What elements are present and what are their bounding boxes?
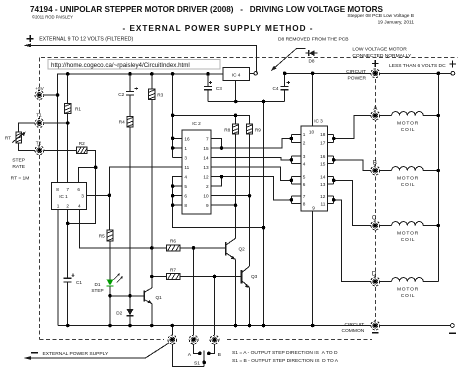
polarity - circuit common (372, 332, 379, 334)
wire: LED D1 to ground rail (109, 286, 111, 326)
svg-text:6: 6 (303, 182, 306, 187)
svg-text:RT = 1M: RT = 1M (11, 176, 30, 182)
svg-text:MOTOR: MOTOR (397, 176, 419, 182)
svg-text:R3: R3 (157, 93, 163, 98)
svg-text:C1: C1 (76, 280, 82, 285)
svg-text:Q3: Q3 (251, 274, 258, 279)
IC4 output open circle (254, 72, 257, 75)
svg-text:- EXTERNAL POWER SUPPLY METHOD: - EXTERNAL POWER SUPPLY METHOD - (122, 24, 313, 33)
terminal motor D (371, 277, 380, 286)
svg-text:D1: D1 (95, 282, 101, 287)
wire: C4 column (284, 73, 286, 101)
node: pin2 C1 junction (66, 222, 70, 226)
terminal T1 (35, 119, 44, 128)
potentiometer RT (5, 131, 26, 143)
svg-text:7: 7 (206, 136, 209, 141)
node: switch contacts (198, 352, 202, 356)
terminal direction A (189, 335, 198, 344)
svg-text:R7: R7 (170, 267, 176, 272)
wire: IC1 pin 1 to ground rail (57, 210, 59, 326)
svg-text:POWER: POWER (348, 75, 367, 81)
svg-text:14: 14 (320, 174, 326, 179)
svg-text:COIL: COIL (401, 182, 416, 188)
wire: QC line to IC3 (211, 167, 291, 180)
wire: IC4 ground to bottom rail (263, 102, 265, 326)
wire: motor power rail (285, 72, 452, 74)
wire: ground bus under IC4 (208, 101, 285, 103)
svg-text:12: 12 (203, 175, 209, 180)
wire: R5 to LED D1 (109, 241, 111, 279)
D8 leader arrow (271, 48, 306, 71)
svg-text:S1: S1 (194, 361, 200, 367)
wire: bottom ground rail (58, 325, 451, 327)
node: pull-up rail junctions (171, 114, 175, 118)
wire: IC3 input bracket 2 (291, 156, 300, 164)
motor supply + open circle (451, 71, 455, 75)
node: motor rail junctions (283, 72, 287, 76)
svg-text:7: 7 (303, 194, 306, 199)
svg-text:C3: C3 (216, 86, 222, 91)
svg-text:15: 15 (203, 146, 209, 151)
node: +5V rail junctions (66, 72, 70, 76)
svg-text:9: 9 (206, 203, 209, 208)
wire: IC3 input bracket 4 (291, 196, 300, 204)
node: pin9 junction (234, 203, 238, 207)
border top (41, 57, 458, 59)
svg-text:STEP: STEP (91, 288, 103, 293)
node: ground bus junctions (234, 100, 238, 104)
op-amp / timer IC1 (51, 183, 86, 210)
svg-text:4: 4 (184, 175, 187, 180)
wire: switch lever (203, 351, 205, 367)
wire: IC4 output to open circle (249, 72, 254, 74)
transistor Q3 (241, 266, 257, 287)
wire: IC1 pin 4 to R6 line (79, 210, 166, 248)
capacitor C2 (118, 87, 138, 97)
wire: IC2 pin8 stub (173, 204, 182, 206)
svg-text:EXTERNAL 9 TO 12 VOLTS (FILTER: EXTERNAL 9 TO 12 VOLTS (FILTERED) (39, 37, 133, 43)
motor coil A (392, 112, 424, 116)
svg-text:IC 3: IC 3 (314, 119, 323, 124)
wire: +5V rail (58, 74, 223, 95)
diode D2 (116, 309, 133, 316)
wire: coil C leads (380, 225, 439, 227)
wire: R1 column (67, 74, 69, 183)
svg-text:Stepper 08 PCB Low Voltage B: Stepper 08 PCB Low Voltage B (347, 13, 414, 19)
svg-text:R4: R4 (119, 120, 125, 125)
wire: pin3 down to R5 (108, 195, 110, 230)
wire: QB line to IC3 (211, 158, 291, 160)
svg-text:3: 3 (81, 193, 84, 198)
svg-text:18: 18 (320, 132, 326, 137)
svg-text:9: 9 (312, 205, 315, 210)
svg-text:1: 1 (303, 132, 306, 137)
svg-text:D8 REMOVED FROM THE PCB: D8 REMOVED FROM THE PCB (278, 36, 349, 42)
svg-text:C4: C4 (273, 86, 279, 91)
wire: IC2 pin5 stub (173, 185, 182, 187)
svg-text:©2011 ROD PAISLEY: ©2011 ROD PAISLEY (32, 15, 73, 20)
svg-text:3: 3 (303, 154, 306, 159)
svg-text:CONNECTED NORMALLY: CONNECTED NORMALLY (352, 53, 412, 59)
svg-text:MOTOR: MOTOR (397, 231, 419, 237)
terminal ground 1 (168, 335, 177, 344)
wire: RT bottom lead (19, 143, 35, 150)
diode D8 (removed from PCB) (305, 50, 317, 63)
svg-text:15: 15 (320, 162, 326, 167)
motor coil D (392, 278, 424, 282)
svg-text:7: 7 (66, 187, 69, 192)
node: IC2 ground bundle junctions (171, 184, 175, 188)
resistor R2 (77, 141, 88, 153)
wire: IC1 pin 2 / C1 column (67, 210, 69, 279)
driver array IC3 (301, 119, 328, 212)
terminal motor C (371, 221, 380, 230)
wire: clock line to IC2 pin 11 (109, 167, 181, 195)
wire: IC2 pin16 stub (173, 137, 182, 139)
svg-text:IC 1: IC 1 (59, 194, 68, 199)
terminal motor A (371, 111, 380, 120)
capacitor C1 (64, 274, 83, 285)
wire: IC3 pin 9 column (312, 211, 314, 325)
svg-text:Q1: Q1 (156, 295, 163, 300)
node: IC2 supply bundle junctions (171, 137, 175, 141)
svg-text:8: 8 (303, 202, 306, 207)
polarity + circuit power (372, 60, 379, 67)
wire: D2 bottom to ground (129, 316, 131, 326)
wire: terminal 1 stub (171, 326, 173, 336)
svg-text:14: 14 (203, 155, 209, 160)
terminal motor B (371, 166, 380, 175)
svg-text:R1: R1 (75, 107, 81, 112)
svg-text:RATE: RATE (12, 164, 25, 170)
resistor R7 (167, 267, 181, 279)
resistor R3 (149, 89, 164, 99)
svg-text:IC 2: IC 2 (192, 121, 201, 126)
wire: IC3 input bracket 1 (291, 134, 300, 142)
terminal T2 (35, 146, 44, 155)
svg-text:8: 8 (184, 203, 187, 208)
svg-text:16: 16 (184, 136, 190, 141)
terminal circuit common (371, 321, 380, 330)
node: right rail junctions (437, 114, 441, 118)
wire: R6 to Q2 base (180, 247, 225, 249)
wire: IC3 pin 10 column (312, 73, 314, 126)
wire: T1 lead to RT (19, 123, 35, 132)
wire: switch pole to terminal 1 (172, 344, 204, 366)
url box (48, 60, 220, 70)
wire: IC2 supply column (172, 74, 174, 158)
wire: Q3 emitter to ground (249, 288, 251, 326)
wire: R2 to pins 2,6 node (68, 150, 96, 223)
wire: coil C feed (334, 180, 371, 225)
wire: external power supply diagonal (27, 343, 169, 358)
node: pin3 output junction (108, 194, 112, 198)
svg-text:10: 10 (309, 130, 315, 135)
wire: R7 line (152, 276, 241, 278)
node: R2 pin6 junction (94, 166, 98, 170)
motor supply - open circle (451, 324, 455, 328)
node: IC3 output bracket junctions (332, 137, 336, 141)
svg-text:R5: R5 (99, 233, 105, 238)
svg-text:6: 6 (184, 194, 187, 199)
svg-text:T2: T2 (36, 140, 42, 145)
node: R6 line junctions (150, 246, 154, 250)
svg-text:T1: T1 (36, 113, 42, 118)
voltage regulator IC4 (223, 67, 249, 80)
svg-text:EXTERNAL POWER SUPPLY: EXTERNAL POWER SUPPLY (43, 351, 110, 357)
wire: Q2 emitter to ground (235, 259, 237, 325)
wire: direction net B column (214, 277, 216, 336)
wire: coil B leads (380, 170, 439, 172)
svg-text:COIL: COIL (401, 127, 416, 133)
wire: +5V terminal lead (44, 94, 58, 96)
wire: right motor rail (437, 73, 439, 281)
svg-text:D8: D8 (309, 58, 315, 63)
wire: IC3 output bracket 3 (327, 176, 333, 184)
svg-text:LESS THAN 6 VOLTS DC: LESS THAN 6 VOLTS DC (389, 63, 446, 69)
polarity - motor supply (449, 332, 456, 334)
svg-text:11: 11 (321, 202, 326, 207)
wire: Q1 emitter to ground (151, 304, 153, 326)
svg-text:4: 4 (78, 204, 81, 209)
resistor R9 (246, 124, 261, 134)
svg-text:2: 2 (206, 184, 209, 189)
border bottom (40, 338, 373, 340)
terminal +5V (35, 91, 44, 100)
wire: IC2 pin6 stub (173, 195, 182, 197)
svg-text:S1 = A - OUTPUT STEP DIRECTION: S1 = A - OUTPUT STEP DIRECTION IS A TO D (232, 350, 338, 356)
svg-text:74194 - UNIPOLAR STEPPER MOTOR: 74194 - UNIPOLAR STEPPER MOTOR DRIVER (2… (30, 5, 383, 14)
wire: R9 column to Q3 collector (249, 134, 251, 266)
motor coil C (392, 222, 424, 226)
arrowhead external power supply (24, 356, 32, 360)
node: Q1 base line junctions (108, 294, 112, 298)
wire: C3 column (207, 74, 209, 102)
wire: Q1 base line (110, 295, 144, 297)
svg-text:13: 13 (203, 165, 209, 170)
svg-text:13: 13 (320, 182, 326, 187)
svg-text:10: 10 (203, 194, 209, 199)
wire: IC3 output bracket 1 (327, 134, 333, 142)
svg-text:16: 16 (320, 154, 326, 159)
wire: T2 lead to R2 (44, 149, 77, 151)
wire: IC3 input bracket 3 (291, 176, 300, 184)
node: QA pin7 junction (220, 146, 224, 150)
wire: C2 R4 D2 column (129, 74, 131, 309)
wire: R3 column down to Q1 collector (151, 99, 153, 288)
svg-text:12: 12 (320, 194, 326, 199)
svg-text:2: 2 (66, 204, 69, 209)
transistor Q1 (144, 288, 162, 304)
wire: IC3 output bracket 4 (327, 196, 333, 204)
wire: external 9-12V arrow line (26, 45, 257, 71)
svg-text:D2: D2 (116, 310, 122, 315)
wire: IC1 pin 6 hook (79, 167, 96, 182)
svg-text:C: C (372, 215, 377, 221)
resistor R8 (224, 124, 239, 134)
capacitor C3 (204, 81, 222, 91)
wire: pull-up sub rail to R8 R9 (173, 115, 250, 124)
capacitor C4 (273, 81, 291, 91)
transistor Q2 (226, 238, 245, 259)
wire: +5V column to IC1 pin 8 (57, 95, 59, 183)
svg-text:CIRCUIT: CIRCUIT (346, 69, 366, 75)
svg-text:R9: R9 (255, 128, 261, 133)
wire: direction net A column (193, 248, 195, 335)
node: bottom rail junctions (66, 324, 70, 328)
svg-text:4: 4 (303, 162, 306, 167)
wire: IC2 pin1 stub (173, 147, 182, 149)
wire: R3 column top (151, 74, 153, 89)
wire: IC2 pin10 line (211, 195, 249, 197)
wire: coil A leads (380, 115, 439, 117)
wire: switch A contact lead (194, 344, 200, 353)
svg-text:2: 2 (303, 141, 306, 146)
svg-text:R2: R2 (79, 141, 85, 146)
svg-text:http://home.cogeco.ca/~rpaisle: http://home.cogeco.ca/~rpaisley4/Circuit… (51, 62, 190, 69)
wire: QD line to IC3 (211, 177, 291, 200)
wire: IC4 ground stub (235, 81, 237, 102)
node: R7 line junctions (150, 275, 154, 279)
wire: QA line to IC3 (211, 139, 291, 149)
svg-text:B: B (218, 352, 221, 358)
svg-text:A: A (373, 106, 377, 112)
svg-text:1: 1 (57, 204, 60, 209)
wire: switch B contact lead (209, 344, 214, 353)
svg-text:R6: R6 (170, 239, 176, 244)
LED D1 (91, 273, 123, 293)
motor coil B (392, 167, 424, 171)
svg-text:LOW VOLTAGE MOTOR: LOW VOLTAGE MOTOR (352, 46, 407, 52)
wire: coil B feed (334, 160, 371, 171)
svg-text:17: 17 (320, 141, 326, 146)
wire: coil A feed (334, 116, 371, 139)
wire: coil D leads (380, 281, 439, 283)
svg-text:Q2: Q2 (239, 247, 246, 252)
svg-text:1: 1 (184, 146, 187, 151)
svg-text:COMMON: COMMON (341, 328, 364, 334)
terminal circuit power (371, 69, 380, 78)
wire: IC2 pin2 hook to QD (211, 177, 221, 187)
svg-text:CIRCUIT: CIRCUIT (344, 322, 364, 328)
svg-text:R8: R8 (224, 128, 230, 133)
svg-text:3: 3 (184, 155, 187, 160)
polarity + motor supply (449, 61, 456, 68)
external 9-12V label (27, 35, 34, 42)
svg-text:19 January, 2011: 19 January, 2011 (378, 20, 415, 26)
wire: IC1 pin 3 output (86, 194, 109, 196)
wire: IC2 ground bundle (173, 177, 264, 228)
svg-text:COIL: COIL (401, 237, 416, 243)
wire: IC3 output bracket 2 (327, 156, 333, 164)
svg-text:IC 4: IC 4 (232, 73, 241, 78)
node: pin10 junction (248, 194, 252, 198)
shift register IC2 (182, 121, 211, 214)
wire: T1 lead right (44, 122, 68, 124)
svg-text:5: 5 (303, 174, 306, 179)
node: switch pole (202, 361, 206, 365)
resistor R5 (99, 230, 114, 241)
wire: coil D feed (334, 200, 371, 282)
resistor R6 (167, 239, 181, 251)
svg-text:MOTOR: MOTOR (397, 287, 419, 293)
svg-text:11: 11 (184, 165, 189, 170)
wire: R8 column to Q2 collector (235, 134, 237, 238)
node: IC2 ground line junction (262, 226, 266, 230)
border left (39, 58, 41, 340)
svg-text:8: 8 (56, 187, 59, 192)
node: QD pin2 junction (220, 175, 224, 179)
resistor R4 (119, 117, 134, 127)
svg-text:S1 = B - OUTPUT STEP DIRECTION: S1 = B - OUTPUT STEP DIRECTION IS D TO A (232, 358, 339, 364)
svg-text:COIL: COIL (401, 293, 416, 299)
svg-text:B: B (373, 160, 377, 166)
node: T1 R1 junction (66, 121, 70, 125)
svg-text:+5V: +5V (35, 86, 44, 91)
arrowhead external 9-12V (24, 44, 32, 48)
svg-text:RT: RT (5, 135, 11, 140)
resistor R1 (65, 103, 82, 113)
external power supply label (31, 351, 109, 357)
wire: IC2 pin9 line (211, 204, 235, 206)
wire: IC2 pin7 hook to QA (211, 138, 221, 148)
wire: IC2 pin3 stub (173, 157, 182, 159)
svg-text:D: D (372, 272, 377, 278)
border right / motor terminal line (374, 79, 376, 321)
wire: C1 bottom lead (67, 282, 69, 326)
svg-text:6: 6 (77, 187, 80, 192)
node: IC3 input bracket junctions (290, 137, 294, 141)
svg-text:C2: C2 (118, 92, 124, 97)
node: +5V terminal junction (56, 93, 60, 97)
svg-text:MOTOR: MOTOR (397, 121, 419, 127)
svg-text:5: 5 (184, 184, 187, 189)
terminal direction B (210, 335, 219, 344)
svg-text:STEP: STEP (12, 158, 25, 164)
